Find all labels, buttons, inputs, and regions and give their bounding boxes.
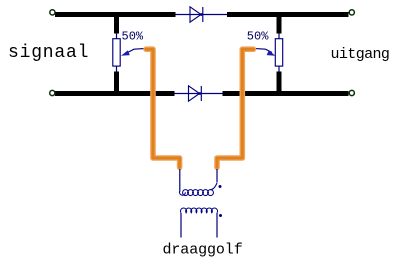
label: R1 value 50% <box>122 29 144 43</box>
wire: left pot upper lead (thin) <box>116 34 118 40</box>
wire: transformer primary right lead <box>216 169 218 183</box>
terminal: output bottom (green open circle) <box>349 90 354 95</box>
wire: left pot lower lead (thick) <box>114 72 119 94</box>
wire: top rail right thick segment <box>227 12 349 17</box>
svg-text:draaggolf: draaggolf <box>163 242 243 259</box>
wire: right pot upper lead (thick) <box>277 15 282 34</box>
transformer T1 primary phase dot <box>219 185 222 188</box>
wiper arrow of R2 <box>256 49 276 56</box>
diode D2 <box>189 86 202 101</box>
wire: top rail thin segment through diode D1 <box>176 14 228 16</box>
svg-text:50%: 50% <box>122 29 144 43</box>
wire: left pot lower lead (thin) <box>116 66 118 71</box>
wire: right pot lower lead (thick) <box>277 72 282 94</box>
wire: middle rail left thick segment <box>55 91 175 96</box>
wire: transformer secondary left leg <box>180 213 182 238</box>
label: signaal <box>8 43 89 63</box>
wire: top rail left thick segment <box>55 12 176 17</box>
transformer T1 primary winding (top coil) <box>180 183 217 196</box>
terminal: input top (green open circle) <box>50 10 55 15</box>
wire: transformer secondary right leg <box>216 213 218 238</box>
terminal: input bottom (green open circle) <box>50 90 55 95</box>
wire: transformer primary left lead <box>179 169 181 192</box>
transformer T1 secondary phase dot <box>219 214 222 217</box>
wiper arrow of R1 <box>121 49 144 56</box>
label: draaggolf <box>163 242 243 259</box>
wire: left pot upper lead (thick) <box>114 15 119 34</box>
svg-text:signaal: signaal <box>8 43 89 63</box>
wire: orange link from R2 wiper to transformer <box>217 49 254 167</box>
svg-text:50%: 50% <box>247 29 269 43</box>
wire: middle rail right thick segment <box>223 91 349 96</box>
wire: orange link from R1 wiper to transformer <box>146 49 180 167</box>
label: R2 value 50% <box>247 29 269 43</box>
wire: middle rail thin segment through diode D2 <box>175 93 223 95</box>
potentiometer R1 body <box>113 39 120 66</box>
label: uitgang <box>331 46 390 63</box>
terminal: output top (green open circle) <box>349 10 354 15</box>
potentiometer R2 body <box>275 39 282 66</box>
svg-text:uitgang: uitgang <box>331 46 390 63</box>
diode D1 <box>190 7 203 22</box>
wire: right pot lower lead (thin) <box>278 66 280 71</box>
wire: right pot upper lead (thin) <box>278 34 280 40</box>
transformer T1 secondary winding (bottom coil) <box>181 208 218 213</box>
